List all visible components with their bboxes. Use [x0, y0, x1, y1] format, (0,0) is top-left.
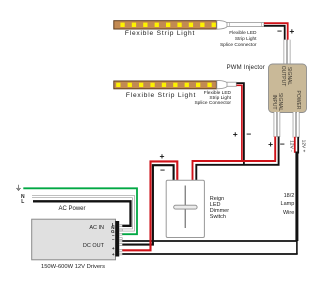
terminal label plus 1	[105, 246, 115, 251]
label: DC OUT	[74, 243, 104, 249]
dimmer switch box	[166, 180, 204, 237]
terminal label L	[105, 222, 115, 227]
splice connector dome (middle)	[217, 80, 228, 88]
white signal-output wire pair	[285, 40, 289, 65]
flexible strip light (top)	[114, 21, 217, 29]
label: AC IN	[74, 225, 104, 231]
label: Flexible Strip Light (middle)	[111, 92, 211, 99]
rotated 12V+ label	[300, 140, 305, 153]
label: top splice connector	[196, 31, 257, 49]
PWM box rotated text: signal output	[279, 66, 291, 87]
terminal tabs	[119, 225, 122, 255]
wire red signal-input to dimmer bus	[193, 137, 276, 181]
18/2 lamp wire cable down right side	[295, 152, 298, 242]
ground symbol	[16, 185, 21, 191]
PWM injector box	[269, 64, 307, 113]
splice connector dome (top)	[217, 20, 228, 29]
label: 18/2 Lamp Wire	[254, 192, 294, 217]
wire black from top splice	[264, 26, 285, 40]
dimmer input wire red from driver	[120, 161, 178, 250]
black line (hot) wire	[33, 201, 131, 226]
wire red from top splice	[264, 23, 288, 40]
plus at dimmer input	[160, 151, 165, 161]
minus at dimmer input	[160, 165, 165, 175]
dimmer input wire black from driver	[120, 165, 174, 244]
minus at signal input	[280, 139, 285, 149]
lamp wire right vertical joint	[296, 240, 298, 254]
splice connector stick (top)	[227, 22, 264, 26]
label: N	[21, 194, 25, 200]
splice connector stick (middle)	[227, 82, 236, 86]
label: 150W-600W 12V Drivers	[23, 264, 123, 270]
label: Flexible Strip Light (top)	[110, 30, 210, 37]
minus at top splice	[277, 26, 282, 36]
terminal label plus 2	[105, 252, 115, 257]
terminal label N	[105, 225, 115, 230]
lamp wire conductor (lower, to driver plus)	[120, 253, 298, 255]
terminal strip	[115, 221, 119, 257]
label: AC Power	[42, 206, 102, 212]
wire red from mid splice down to signal bus	[237, 85, 242, 161]
PWM box rotated text: signal input	[270, 92, 282, 110]
white signal-input wire pair	[275, 112, 278, 137]
wire red power stub 12V-	[294, 137, 296, 153]
green ground wire	[23, 188, 137, 234]
plus at signal input	[268, 139, 273, 149]
label: PWM Injector	[205, 65, 265, 71]
label: mid splice connector	[170, 92, 231, 107]
wire black power stub 12V+	[297, 137, 299, 154]
flexible strip light (middle)	[114, 81, 217, 89]
lamp wire conductor (upper, to driver minus)	[120, 240, 298, 242]
PWM box rotated text: power	[295, 91, 301, 110]
driver box	[32, 219, 116, 260]
wire black signal-input to dimmer bus	[196, 137, 278, 181]
plus at mid wires	[233, 129, 238, 139]
white neutral wire	[32, 197, 134, 230]
terminal label G	[105, 229, 115, 234]
label: Reign LED Dimmer Switch	[210, 196, 229, 220]
label: L	[21, 199, 24, 205]
minus at mid wires	[246, 129, 251, 139]
terminal label minus 2	[105, 237, 115, 242]
rotated 12V- label	[288, 140, 293, 151]
white power wire pair	[294, 112, 298, 138]
plus at top splice	[289, 26, 294, 36]
terminal label minus 1	[105, 233, 115, 238]
wire black from mid splice down to signal bus	[237, 83, 244, 165]
